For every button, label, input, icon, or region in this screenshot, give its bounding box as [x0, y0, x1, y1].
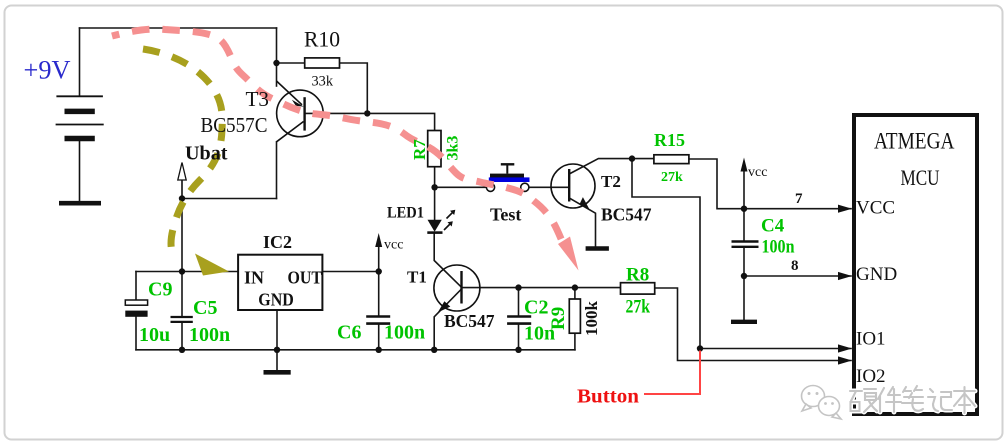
node vcc at IC2 OUT [376, 268, 382, 274]
capacitor C9 [125, 300, 147, 317]
svg-text:C4: C4 [761, 216, 785, 237]
junction IO1 / button net [697, 345, 703, 351]
wire T2 collector node to IO1 [632, 159, 700, 349]
svg-text:ATMEGA: ATMEGA [874, 129, 955, 154]
wire C4 branch upper [743, 209, 745, 241]
junction R9 at T1 base [572, 284, 578, 290]
wire Ubat node horizontal [182, 198, 277, 200]
wire vcc2 arrow stem [743, 170, 745, 209]
pin arrow VCC [838, 205, 852, 213]
svg-text:BC547: BC547 [601, 205, 652, 225]
battery B1 [56, 96, 104, 201]
Ubat arrow [178, 163, 186, 199]
resistor R7 [428, 131, 441, 167]
svg-text:7: 7 [795, 191, 803, 207]
svg-text:BC557C: BC557C [201, 113, 268, 137]
node vcc at MCU VCC [741, 206, 747, 212]
junction C4 at GND wire [741, 273, 747, 279]
svg-text:10u: 10u [139, 324, 170, 346]
wire IN node horizontal to IC2 [136, 271, 238, 273]
vcc arrow left [375, 233, 382, 247]
wire R8 right to IO2 [655, 288, 851, 361]
vcc arrow right [741, 158, 748, 172]
junction C6 at ground rail [376, 347, 382, 353]
svg-text:33k: 33k [312, 74, 334, 90]
svg-text:+9V: +9V [24, 56, 71, 85]
wire R10 right and down to base node [340, 63, 368, 113]
junction C2 at ground rail [515, 347, 521, 353]
wire R7 bottom [434, 167, 436, 188]
svg-text:R15: R15 [654, 130, 685, 150]
wire C2 branch lower [518, 325, 520, 350]
wire C6 branch lower [378, 325, 380, 350]
IC U1 IC2 box [238, 255, 322, 310]
resistor R10 [305, 58, 340, 68]
svg-text:8: 8 [791, 258, 799, 274]
svg-text:100n: 100n [384, 322, 425, 344]
wire T3 base to node to R7 [305, 113, 435, 130]
wire test switch right to T2 base [529, 186, 569, 188]
wire T3 emitter drop vertical [276, 28, 278, 86]
ground battery [59, 201, 101, 206]
svg-text:vcc: vcc [748, 165, 767, 180]
arrowhead olive [195, 254, 229, 276]
svg-text:R8: R8 [626, 265, 649, 286]
junction T1 emitter at ground rail [431, 347, 437, 353]
svg-text:27k: 27k [626, 297, 651, 318]
svg-text:vcc: vcc [384, 238, 403, 253]
wire R15 right to MCU VCC [689, 159, 851, 209]
wire C9 branch lower [135, 317, 137, 350]
pin arrow GND [838, 272, 852, 280]
ground T2 [586, 246, 609, 250]
arrowhead pink [558, 237, 579, 271]
resistor R9 [569, 299, 580, 333]
svg-text:T2: T2 [601, 172, 621, 191]
junction R7 / LED1 / switch [431, 184, 437, 190]
wire IO1 [700, 348, 851, 350]
junction IC2 GND at ground rail [274, 347, 280, 353]
wire T1 emitter down [434, 289, 461, 350]
wire R9 top [574, 288, 576, 299]
svg-text:Button: Button [577, 386, 639, 408]
capacitor C2 [507, 317, 531, 324]
svg-text:IO2: IO2 [856, 366, 886, 387]
svg-text:C2: C2 [524, 297, 548, 319]
svg-text:IO1: IO1 [856, 329, 886, 350]
ground IC2 [264, 370, 291, 375]
svg-text:R10: R10 [304, 27, 340, 52]
svg-text:T1: T1 [407, 268, 427, 287]
svg-text:3k3: 3k3 [445, 136, 462, 161]
wire battery top vertical [79, 28, 81, 96]
wire ground rail [136, 349, 575, 351]
wire T2 collector diagonal [569, 159, 654, 174]
wire IC2 GND stub [276, 310, 278, 370]
wire C4 branch lower [743, 248, 745, 320]
wire GND to MCU [744, 275, 851, 277]
svg-text:C6: C6 [337, 322, 361, 344]
resistor R15 [654, 155, 689, 164]
node Ubat [179, 195, 185, 201]
wire test switch left [435, 186, 487, 188]
junction R10 left at battery rail [273, 60, 279, 66]
svg-text:VCC: VCC [856, 198, 895, 219]
wire C9 branch upper [135, 272, 137, 301]
switch S1 Test [486, 164, 529, 191]
ground C4 [731, 320, 757, 324]
capacitor C4 [732, 242, 759, 247]
dashed highlight pink curve [112, 29, 562, 241]
IC U2 ATMEGA MCU box [854, 115, 977, 414]
wire LED1 bottom to T1 collector [434, 234, 461, 288]
wire R10 left [277, 62, 305, 64]
wire LED1 top [434, 187, 436, 220]
junction T2 collector / R15 [629, 155, 635, 161]
wire top rail horizontal [80, 27, 277, 29]
wire IC2 OUT to vcc node [323, 271, 379, 273]
svg-text:T3: T3 [246, 87, 270, 111]
svg-text:100n: 100n [189, 324, 230, 346]
capacitor C5 [171, 317, 193, 322]
svg-text:C9: C9 [148, 279, 172, 301]
resistor R8 [621, 283, 655, 294]
dashed highlight olive curve [143, 49, 222, 252]
svg-text:IC2: IC2 [263, 232, 292, 252]
transistor T1 (BC547) [434, 265, 480, 312]
LED LED1 [427, 210, 455, 233]
wire vcc arrow stem [378, 245, 380, 272]
junction T3 base / R10 [364, 110, 370, 116]
svg-text:LED1: LED1 [387, 205, 424, 222]
transistor T2 (BC547) [551, 164, 595, 209]
svg-text:MCU: MCU [901, 165, 940, 190]
wire C6 branch upper [378, 272, 380, 316]
wire C5 branch upper [181, 272, 183, 317]
watermark logo bubbles [802, 386, 842, 420]
svg-text:27k: 27k [661, 170, 683, 185]
svg-text:R9: R9 [548, 307, 569, 330]
wire T3 collector down [276, 142, 278, 199]
wire Ubat node down to IN node [181, 199, 183, 272]
junction IC2 IN / C9 / C5 [179, 268, 185, 274]
wire T1 base to R8 [462, 287, 621, 289]
svg-text:100n: 100n [762, 237, 795, 258]
svg-text:R7: R7 [410, 139, 429, 160]
wire C5 branch lower [181, 323, 183, 350]
transistor T3 (BC557C) [277, 81, 324, 142]
svg-text:GND: GND [258, 290, 294, 310]
junction C5 at ground rail [179, 347, 185, 353]
svg-text:GND: GND [856, 264, 897, 285]
wire C2 branch upper [518, 288, 520, 316]
capacitor C6 [366, 317, 390, 324]
junction C2 at T1 base [515, 284, 521, 290]
svg-text:100k: 100k [582, 301, 601, 337]
svg-text:OUT: OUT [288, 268, 323, 288]
wire T2 emitter [569, 198, 595, 247]
svg-text:Ubat: Ubat [185, 143, 228, 165]
watermark text 硬件笔记本 (hand drawn) [850, 386, 975, 413]
svg-text:C5: C5 [193, 297, 217, 319]
svg-text:IN: IN [244, 268, 264, 288]
pin arrow IO1 [838, 344, 852, 352]
svg-text:Test: Test [490, 205, 521, 225]
wire R9 bottom [574, 333, 576, 350]
svg-text:BC547: BC547 [444, 311, 495, 331]
pin arrow IO2 [838, 356, 852, 364]
wire Button red [644, 351, 700, 395]
